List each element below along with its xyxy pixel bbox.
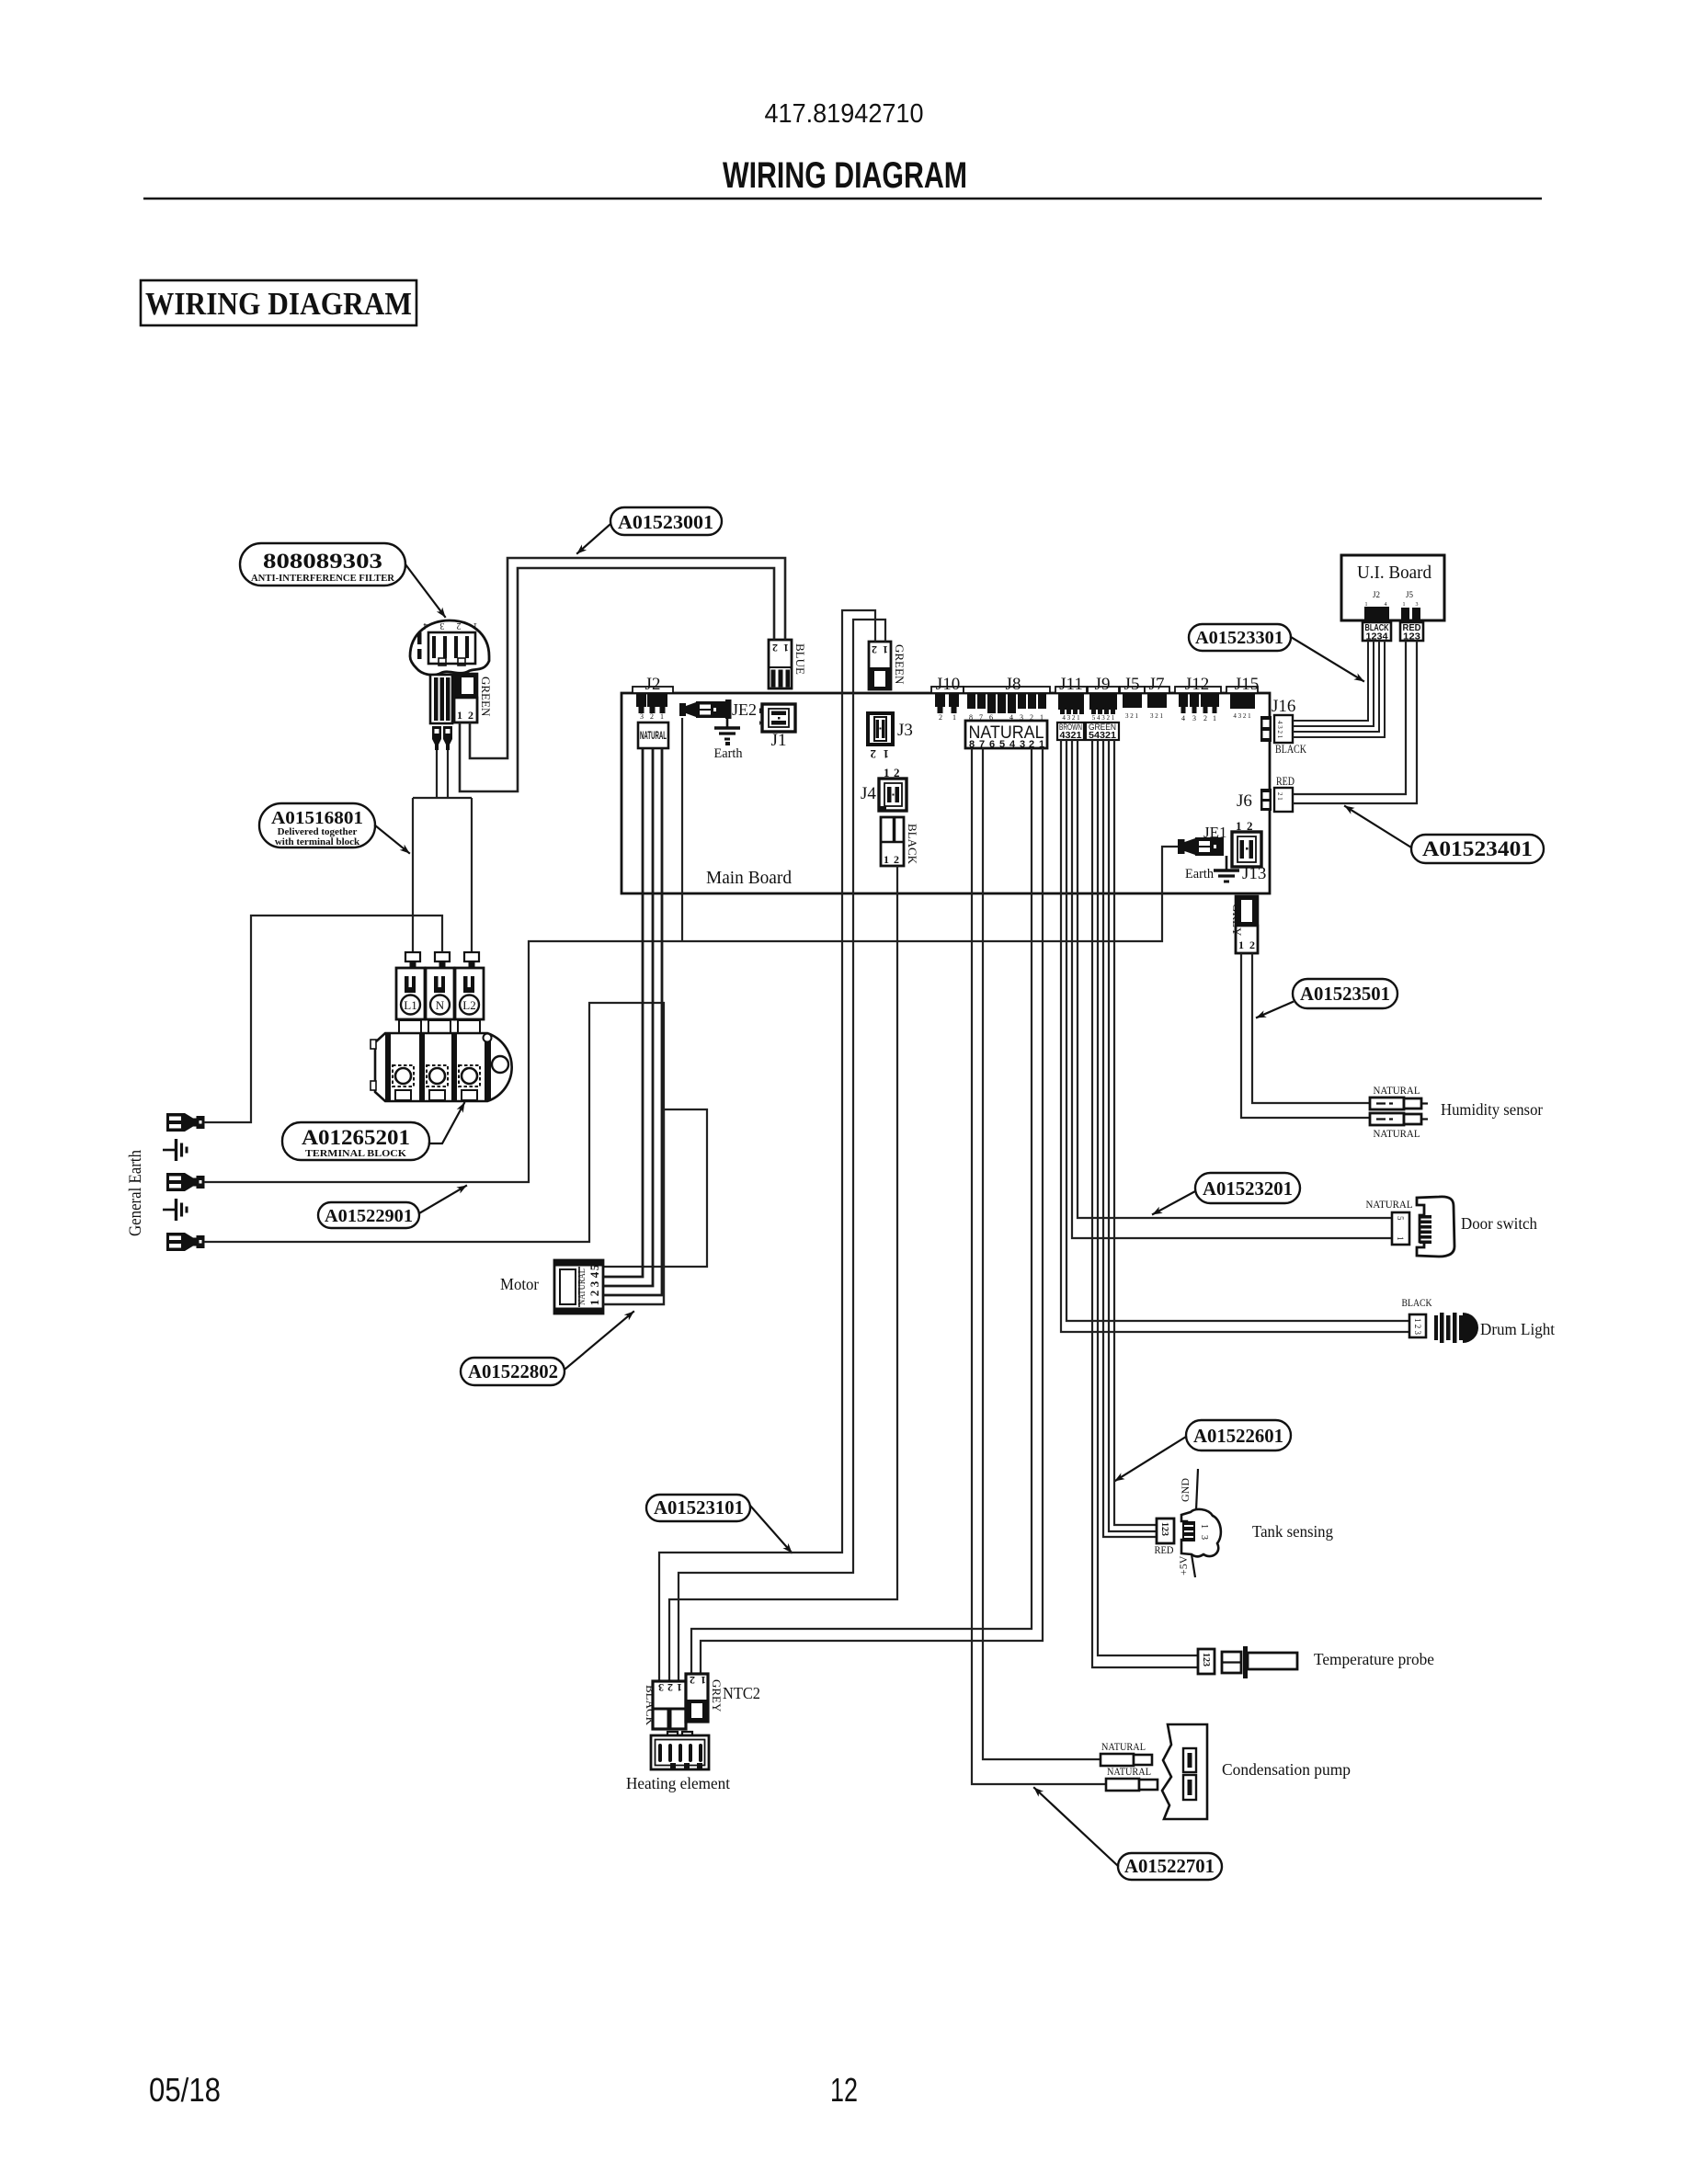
svg-text:1: 1: [1213, 714, 1216, 722]
connector J4 pin labels 1 2: [884, 766, 900, 779]
wire J9 to tank sensing pin2: [1109, 740, 1157, 1531]
callout A01523201: [1153, 1173, 1300, 1214]
svg-text:BLACK: BLACK: [644, 1685, 657, 1726]
wire filter green pin1 to blue pin1 (A01523001 inner): [460, 568, 774, 791]
NTC2 BLACK connector: [644, 1681, 686, 1729]
wire UI-J5 to J6 pin1: [1293, 641, 1406, 794]
wire motor pin1 stub: [603, 1109, 664, 1304]
connector J9 GREEN box: [1086, 722, 1119, 741]
wire J9 to tank sensing pin1: [1114, 740, 1157, 1525]
svg-text:3: 3: [1020, 739, 1025, 750]
wire J9 to tank sensing pin3: [1103, 740, 1157, 1537]
svg-text:Humidity sensor: Humidity sensor: [1441, 1100, 1543, 1119]
earth symbol at JE1: [1214, 856, 1239, 882]
svg-text:1: 1: [1396, 1236, 1405, 1241]
svg-text:A01516801: A01516801: [271, 808, 363, 828]
svg-text:1: 1: [587, 1300, 601, 1306]
svg-text:3: 3: [1416, 602, 1419, 608]
svg-text:A01522701: A01522701: [1124, 1855, 1215, 1877]
wire motor pin3 to J2: [603, 748, 653, 1286]
svg-text:J15: J15: [1235, 675, 1259, 694]
svg-text:NATURAL: NATURAL: [1374, 1084, 1420, 1097]
svg-text:L1: L1: [404, 998, 416, 1012]
svg-text:1: 1: [1238, 938, 1244, 951]
callout A01522901: [318, 1186, 466, 1228]
wire green@J3 pin1 to NTC2 black pin3: [659, 610, 875, 1681]
svg-text:4 3 2 1: 4 3 2 1: [1233, 712, 1251, 720]
svg-text:J8: J8: [1006, 675, 1021, 694]
door switch body: [1417, 1197, 1454, 1257]
wire J4-black to NTC2 black pin2: [669, 866, 897, 1681]
svg-text:2: 2: [650, 712, 654, 721]
wire J9 to temperature probe upper: [1098, 740, 1198, 1655]
svg-text:ANTI-INTERFERENCE FILTER: ANTI-INTERFERENCE FILTER: [251, 573, 395, 584]
svg-text:L2: L2: [462, 998, 475, 1012]
svg-text:1: 1: [701, 1674, 706, 1687]
svg-text:808089303: 808089303: [263, 550, 382, 573]
wire J11 to door switch upper: [1078, 740, 1392, 1218]
wire JE2 to earth bus: [681, 718, 683, 941]
svg-text:J9: J9: [1095, 675, 1111, 694]
earth symbol at JE2: [714, 718, 740, 745]
svg-text:4: 4: [1181, 714, 1185, 722]
svg-text:5: 5: [1396, 1216, 1405, 1221]
svg-text:N: N: [436, 998, 445, 1012]
wire filter lugs down to terminal bus: [413, 750, 472, 952]
svg-text:2: 2: [1203, 714, 1207, 722]
tank sensing RED connector: [1157, 1519, 1174, 1543]
wire green@J3 pin2 to NTC2 black pin1: [679, 620, 885, 1681]
filter relay component: [430, 675, 452, 723]
svg-text:3: 3: [1192, 714, 1196, 722]
door switch connector: [1392, 1212, 1409, 1245]
svg-text:2: 2: [871, 747, 877, 761]
connector J15 pins: [1226, 687, 1258, 720]
svg-text:BLACK: BLACK: [1402, 1296, 1432, 1309]
svg-text:GREEN: GREEN: [893, 644, 907, 685]
svg-text:4 3 2 1: 4 3 2 1: [1062, 714, 1080, 722]
svg-text:05/18: 05/18: [149, 2071, 221, 2109]
drum light connector: [1409, 1314, 1426, 1337]
callout A01522701: [1034, 1788, 1222, 1880]
svg-text:5 4 3 2 1: 5 4 3 2 1: [1092, 714, 1115, 722]
svg-text:NATURAL: NATURAL: [640, 729, 667, 742]
svg-text:1: 1: [1199, 1524, 1209, 1529]
connector J9 pins: [1088, 687, 1119, 722]
svg-text:Motor: Motor: [500, 1275, 539, 1293]
svg-text:J7: J7: [1149, 675, 1165, 694]
svg-text:TERMINAL BLOCK: TERMINAL BLOCK: [305, 1149, 407, 1159]
terminal cap N: [435, 952, 450, 968]
svg-text:J2: J2: [645, 675, 661, 694]
svg-text:1: 1: [660, 712, 664, 721]
connector BLACK below J4: [881, 817, 919, 866]
svg-text:JE1: JE1: [1203, 824, 1227, 841]
connector GREEN at filter: [454, 674, 493, 722]
svg-text:Drum Light: Drum Light: [1480, 1320, 1555, 1338]
svg-text:123: 123: [1201, 1653, 1211, 1666]
NTC2 GREY connector: [686, 1674, 724, 1722]
svg-text:Tank sensing: Tank sensing: [1252, 1522, 1333, 1541]
humidity sensor connector lower: [1370, 1113, 1428, 1125]
svg-text:1: 1: [1403, 602, 1406, 608]
U.I. Board J2 connector: [1364, 607, 1389, 620]
connector J13: [1232, 832, 1261, 867]
svg-text:4: 4: [587, 1271, 601, 1278]
svg-text:NATURAL: NATURAL: [1101, 1740, 1146, 1753]
temperature probe body: [1222, 1646, 1297, 1678]
svg-text:3: 3: [658, 1681, 664, 1694]
svg-text:BLACK: BLACK: [906, 824, 919, 865]
wire earth spade3 to motor pin5: [204, 1003, 707, 1267]
connector J6: [1260, 788, 1293, 812]
svg-text:1: 1: [457, 709, 462, 722]
svg-text:A01523101: A01523101: [654, 1496, 744, 1519]
svg-text:4: 4: [1009, 739, 1016, 750]
svg-text:A01523301: A01523301: [1195, 628, 1283, 648]
svg-text:J11: J11: [1059, 675, 1083, 694]
svg-text:BLACK: BLACK: [1275, 742, 1306, 756]
svg-text:3: 3: [587, 1280, 601, 1287]
svg-text:1: 1: [783, 642, 789, 654]
svg-text:J13: J13: [1242, 864, 1266, 883]
callout A01523501: [1257, 979, 1397, 1018]
filter spade lug left: [432, 726, 441, 750]
svg-text:A01522802: A01522802: [468, 1360, 558, 1382]
wire filter green pin2 to blue pin2 (A01523001 outer): [470, 558, 785, 758]
wire J9 to temperature probe lower: [1092, 740, 1198, 1667]
svg-text:123: 123: [1403, 631, 1420, 643]
svg-text:RED: RED: [1276, 774, 1295, 788]
connector J1: [762, 704, 795, 732]
general earth ground symbol 1: [163, 1139, 187, 1161]
svg-text:with terminal block: with terminal block: [275, 836, 360, 847]
svg-text:1: 1: [884, 853, 889, 866]
wire J8 to NTC2 grey pin2: [701, 748, 1043, 1674]
general earth spade 2: [166, 1173, 205, 1191]
general earth spade 1: [166, 1113, 205, 1132]
svg-text:Temperature probe: Temperature probe: [1314, 1650, 1434, 1668]
svg-text:NATURAL: NATURAL: [1107, 1765, 1151, 1778]
connector J11 pins: [1055, 687, 1087, 722]
wire UI-J2 to J16 pin2: [1293, 641, 1374, 726]
svg-text:5: 5: [587, 1264, 601, 1270]
svg-text:6: 6: [989, 739, 995, 750]
svg-text:1: 1: [473, 620, 478, 631]
svg-text:J5: J5: [1406, 590, 1414, 599]
connector J2 pins: [633, 687, 673, 721]
connector J3 pin labels 2 1: [871, 747, 890, 761]
svg-text:1: 1: [884, 747, 890, 761]
svg-text:GREEN: GREEN: [479, 677, 493, 717]
wire UI-J2 to J16 pin3: [1293, 641, 1379, 732]
svg-text:J2: J2: [1373, 590, 1380, 599]
heating element connector: [651, 1732, 709, 1769]
svg-text:RED: RED: [1155, 1543, 1174, 1556]
callout A01523101: [646, 1495, 792, 1553]
callout A01265201 terminal block: [282, 1103, 464, 1160]
svg-text:Earth: Earth: [1185, 867, 1214, 882]
tank sensing +5V lead: [1177, 1554, 1195, 1577]
svg-text:Main Board: Main Board: [706, 868, 792, 888]
svg-text:3 2 1: 3 2 1: [1150, 712, 1164, 720]
svg-text:123: 123: [1159, 1522, 1169, 1536]
motor connector: [554, 1260, 603, 1314]
wire earth spade2 to JE1: [204, 847, 1178, 1182]
svg-text:GREY: GREY: [1230, 904, 1244, 937]
svg-text:Door switch: Door switch: [1461, 1214, 1537, 1233]
svg-text:WIRING DIAGRAM: WIRING DIAGRAM: [723, 155, 967, 196]
callout A01523001: [577, 507, 722, 553]
drum light bulb: [1434, 1313, 1478, 1343]
svg-text:1: 1: [677, 1681, 682, 1694]
wire J11 to drum light lower: [1061, 740, 1409, 1332]
wire earth spade1 to terminal N: [204, 916, 442, 1122]
svg-text:General Earth: General Earth: [126, 1150, 145, 1236]
svg-text:J10: J10: [936, 675, 960, 694]
svg-text:2: 2: [894, 853, 899, 866]
svg-text:JE2: JE2: [732, 700, 757, 719]
terminal box L1: [396, 968, 425, 1019]
terminal cap L2: [464, 952, 479, 968]
svg-text:A01523001: A01523001: [618, 511, 713, 533]
general earth spade 3: [166, 1233, 205, 1251]
callout A01522601: [1115, 1420, 1291, 1481]
svg-text:12: 12: [830, 2071, 858, 2109]
connector J4: [879, 779, 907, 811]
svg-text:3: 3: [1199, 1535, 1209, 1540]
svg-text:3: 3: [440, 620, 445, 631]
terminal JE1: [1178, 837, 1224, 856]
connector J5 pins: [1120, 687, 1145, 720]
svg-text:2 1: 2 1: [1276, 792, 1283, 801]
terminal JE2: [679, 700, 757, 719]
wire J8 to NTC2 grey pin1: [691, 748, 1032, 1674]
svg-text:A01522601: A01522601: [1193, 1425, 1283, 1447]
svg-text:5: 5: [999, 739, 1005, 750]
svg-text:NATURAL: NATURAL: [576, 1268, 587, 1305]
svg-text:GREY: GREY: [710, 1679, 724, 1712]
svg-text:NTC2: NTC2: [723, 1684, 760, 1702]
tank sensing GND lead: [1179, 1469, 1198, 1510]
svg-text:1: 1: [883, 643, 888, 656]
connector J10 pins: [931, 687, 964, 722]
svg-text:WIRING DIAGRAM: WIRING DIAGRAM: [145, 286, 412, 322]
connector J11 BROWN box: [1057, 722, 1084, 741]
svg-text:4: 4: [424, 620, 428, 631]
boxed section title: [141, 280, 416, 325]
svg-text:1234: 1234: [1366, 631, 1388, 643]
anti-interference filter body: [410, 620, 489, 675]
callout A01523401: [1345, 806, 1544, 863]
connector BLUE (to A01523001): [769, 640, 807, 688]
callout 808089303 anti-interference filter: [240, 543, 445, 617]
svg-text:Condensation pump: Condensation pump: [1222, 1760, 1351, 1779]
wire UI-J2 to J16 pin4: [1293, 641, 1385, 737]
temperature probe connector: [1198, 1649, 1215, 1674]
callout A01522802: [461, 1312, 633, 1385]
svg-text:1: 1: [952, 713, 956, 722]
svg-text:GND: GND: [1179, 1478, 1192, 1502]
filter spade lug right: [443, 726, 452, 750]
svg-text:2: 2: [468, 709, 473, 722]
svg-text:1 2 3: 1 2 3: [1413, 1318, 1422, 1336]
svg-text:J6: J6: [1237, 791, 1252, 811]
callout A01523301: [1189, 624, 1363, 681]
svg-text:2: 2: [457, 620, 462, 631]
wire grey@J13 pin1 to humidity sensor lower: [1241, 953, 1370, 1118]
svg-text:54321: 54321: [1089, 731, 1116, 741]
svg-text:A01523501: A01523501: [1300, 983, 1390, 1005]
terminal cap L1: [405, 952, 420, 968]
svg-text:4 3 2 1: 4 3 2 1: [1276, 721, 1283, 739]
connector J1 pin labels 2 1: [757, 708, 770, 726]
U.I. Board box: [1341, 555, 1444, 620]
wire motor pin4 to J2: [603, 748, 643, 1277]
connector J3: [868, 713, 893, 745]
connector J8 NATURAL box: [965, 721, 1047, 750]
connector J13 pin labels 1 2: [1236, 819, 1253, 833]
svg-text:NATURAL: NATURAL: [1366, 1198, 1413, 1211]
terminal block assembly: [371, 1020, 512, 1101]
tank sensing sensor body: [1181, 1509, 1221, 1556]
svg-text:Heating element: Heating element: [626, 1774, 730, 1792]
svg-text:3: 3: [640, 712, 644, 721]
svg-text:3 2 1: 3 2 1: [1125, 712, 1139, 720]
svg-text:2: 2: [772, 642, 778, 654]
svg-text:J1: J1: [771, 731, 787, 750]
connector GREEN at J3: [869, 642, 907, 689]
wire J8 to condensation pump lower: [972, 748, 1106, 1784]
svg-text:NATURAL: NATURAL: [1374, 1127, 1420, 1140]
callout A01516801 delivered together with terminal block: [259, 803, 409, 853]
svg-text:A01522901: A01522901: [325, 1206, 413, 1226]
svg-text:BLUE: BLUE: [793, 643, 807, 675]
svg-text:2: 2: [939, 713, 942, 722]
UI RED 123 box: [1400, 622, 1423, 643]
svg-text:+5V: +5V: [1177, 1555, 1190, 1575]
svg-text:A01265201: A01265201: [302, 1126, 410, 1149]
UI BLACK 1234 box: [1363, 622, 1391, 643]
connector J7 pins: [1145, 687, 1169, 720]
connector J12 pins: [1175, 687, 1221, 722]
wire J8 to condensation pump upper: [983, 748, 1101, 1759]
svg-text:A01523201: A01523201: [1203, 1177, 1293, 1200]
connector J2 NATURAL box: [638, 722, 668, 748]
svg-text:4321: 4321: [1060, 731, 1082, 741]
U.I. Board J5 connector: [1401, 608, 1420, 620]
svg-text:2: 2: [667, 1681, 673, 1694]
wire J11 to drum light upper: [1066, 740, 1409, 1321]
wire grey@J13 pin2 to humidity sensor upper: [1252, 953, 1370, 1103]
svg-text:J5: J5: [1124, 675, 1140, 694]
svg-text:J3: J3: [897, 721, 913, 740]
header rule: [143, 198, 1542, 199]
svg-text:2: 2: [587, 1291, 601, 1297]
condensation pump NATURAL connector upper: [1101, 1740, 1152, 1766]
condensation pump NATURAL connector lower: [1106, 1765, 1158, 1791]
connector J16: [1260, 715, 1293, 743]
connector J8 pins: [964, 687, 1050, 722]
wire UI-J2 to J16 pin1: [1293, 641, 1368, 721]
svg-text:417.81942710: 417.81942710: [765, 99, 924, 129]
wire J11 to door switch lower: [1072, 740, 1392, 1238]
connector GREY below J13: [1230, 896, 1258, 953]
svg-text:2: 2: [1249, 938, 1255, 951]
general earth ground symbol 2: [163, 1199, 187, 1221]
svg-text:J12: J12: [1185, 675, 1209, 694]
main board outline: [622, 693, 1270, 893]
svg-text:Earth: Earth: [714, 746, 743, 761]
svg-text:A01523401: A01523401: [1422, 837, 1533, 860]
svg-text:J16: J16: [1272, 697, 1295, 716]
terminal box L2: [455, 968, 484, 1019]
wire UI-J5 to J6 pin2: [1293, 641, 1417, 803]
humidity sensor connector upper: [1370, 1098, 1428, 1109]
svg-text:J4: J4: [861, 784, 876, 803]
svg-text:U.I. Board: U.I. Board: [1357, 563, 1431, 583]
svg-text:2: 2: [872, 643, 877, 656]
wire motor pin2 to J2: [603, 748, 662, 1295]
condensation pump body: [1162, 1724, 1207, 1819]
svg-text:2: 2: [690, 1674, 695, 1687]
terminal box N: [426, 968, 454, 1019]
